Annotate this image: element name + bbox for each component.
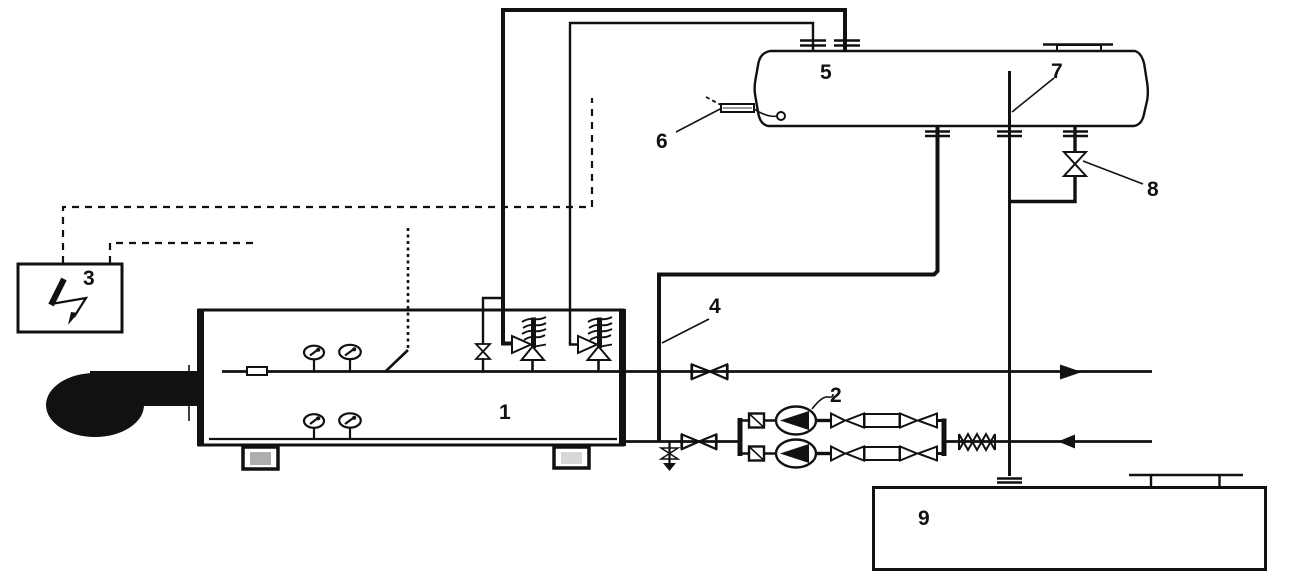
svg-text:3: 3 — [83, 267, 95, 290]
svg-text:2: 2 — [830, 384, 842, 407]
svg-text:5: 5 — [820, 61, 832, 84]
svg-text:7: 7 — [1051, 60, 1063, 83]
svg-text:4: 4 — [709, 295, 721, 318]
svg-text:8: 8 — [1147, 178, 1159, 201]
svg-text:1: 1 — [499, 401, 511, 424]
svg-text:9: 9 — [918, 507, 930, 530]
svg-text:6: 6 — [656, 130, 668, 153]
